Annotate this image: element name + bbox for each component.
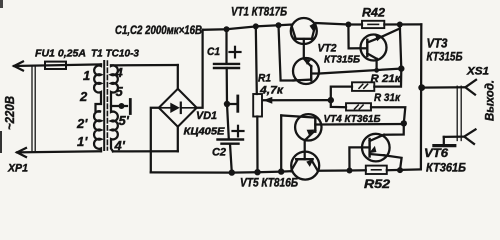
bridge rectifier VD1 bbox=[159, 89, 197, 127]
wire: bridge bottom riser bbox=[177, 127, 179, 152]
capacitor C1 bbox=[214, 29, 239, 104]
svg-text:ХS1: ХS1 bbox=[466, 66, 489, 78]
wire: plug top pin through fuse to primary bbox=[14, 64, 101, 66]
svg-text:5': 5' bbox=[119, 113, 130, 128]
wire: bridge plus riser to top rail bbox=[197, 30, 203, 108]
svg-text:VT1 КТ817Б: VT1 КТ817Б bbox=[231, 5, 287, 19]
svg-text:КТ315Б: КТ315Б bbox=[324, 53, 361, 65]
chassis symbol at C1/C2 midpoint bbox=[236, 96, 239, 111]
wire: plug bottom pin to primary bbox=[17, 151, 101, 152]
junction bbox=[229, 169, 235, 175]
transistor VT4 bbox=[281, 114, 321, 140]
wire: R4 right to corner bbox=[384, 23, 421, 25]
wire: top rail right bbox=[316, 23, 362, 25]
svg-text:VT6: VT6 bbox=[424, 146, 448, 160]
svg-text:КЦ405Е: КЦ405Е bbox=[184, 126, 226, 138]
junction: centre tap bbox=[119, 103, 125, 109]
svg-text:1: 1 bbox=[83, 68, 90, 83]
svg-text:VT3: VT3 bbox=[427, 37, 448, 51]
svg-text:С1: С1 bbox=[207, 46, 220, 58]
ground: output common chassis bbox=[434, 137, 455, 146]
wire: R2 left to wiper node bbox=[331, 87, 352, 108]
svg-text:R 31к: R 31к bbox=[374, 92, 401, 104]
transistor VT2 bbox=[293, 58, 319, 84]
svg-text:КТ361Б: КТ361Б bbox=[426, 161, 466, 175]
wire: VT4 base line to node bbox=[321, 123, 404, 126]
junction bbox=[401, 120, 407, 126]
svg-text:R 21к: R 21к bbox=[371, 73, 402, 85]
plus sign C1 bbox=[230, 47, 241, 58]
junction: wiper node bbox=[328, 97, 334, 103]
junction: C1/C2 midpoint bbox=[224, 101, 230, 107]
svg-text:5: 5 bbox=[116, 84, 124, 99]
svg-text:С1,С2 2000мк×16В: С1,С2 2000мк×16В bbox=[115, 25, 202, 37]
junction bbox=[253, 23, 259, 29]
wire: node down right of R42 bbox=[400, 25, 402, 69]
capacitor C2 bbox=[218, 104, 244, 173]
svg-text:VD1: VD1 bbox=[196, 110, 217, 122]
svg-text:Т1 ТС10-3: Т1 ТС10-3 bbox=[91, 48, 139, 60]
wire: rail to VT2 collector bbox=[279, 25, 294, 80]
wire: node to R2 right bbox=[374, 69, 401, 87]
junction bbox=[224, 26, 230, 32]
wire: bottom rail right bbox=[318, 169, 366, 172]
resistor R3 bbox=[346, 103, 371, 110]
wire: midpoint to chassis bbox=[227, 103, 237, 105]
wire: rail dot to VT6 base bbox=[349, 147, 361, 170]
scan edge artifact bbox=[0, 131, 2, 153]
resistor R5 bbox=[366, 166, 387, 174]
transistor VT6 bbox=[362, 134, 390, 162]
svg-text:FU1 0,25A: FU1 0,25A bbox=[35, 48, 86, 60]
junction bbox=[397, 22, 403, 28]
wire: secondary 4 to bridge top bbox=[111, 64, 178, 67]
junction bbox=[397, 167, 403, 173]
wire: VT4 collector to bottom rail bbox=[280, 115, 282, 171]
svg-text:R1: R1 bbox=[258, 73, 271, 85]
transformer T1 core bbox=[104, 61, 107, 150]
junction bbox=[254, 169, 260, 175]
svg-text:С2: С2 bbox=[212, 147, 226, 159]
svg-text:2: 2 bbox=[79, 89, 88, 104]
transformer T1 secondary winding bbox=[111, 65, 118, 151]
svg-text:2': 2' bbox=[76, 116, 88, 131]
svg-text:КТ315Б: КТ315Б bbox=[427, 52, 463, 64]
wire: bottom rail left bbox=[151, 171, 291, 172]
wire: VT6 collector to node bbox=[384, 123, 404, 134]
svg-text:ХР1: ХР1 bbox=[7, 163, 28, 175]
svg-text:~220В: ~220В bbox=[2, 96, 17, 130]
svg-text:Выход.: Выход. bbox=[485, 80, 497, 121]
plus sign C2 bbox=[233, 126, 244, 137]
transistor VT1 bbox=[291, 18, 317, 58]
junction bbox=[418, 84, 425, 91]
transistor VT3 bbox=[361, 29, 400, 71]
wire: R5 right to corner bbox=[387, 168, 421, 171]
wire: VT4 emitter down to VT5 base bbox=[304, 140, 306, 159]
junction bbox=[345, 22, 351, 28]
wire: secondary 4' to bridge bottom bbox=[113, 150, 178, 152]
svg-text:4,7к: 4,7к bbox=[259, 85, 285, 97]
resistor R2 bbox=[352, 82, 374, 91]
wire: right side vertical bbox=[420, 24, 423, 169]
junction: VT3 collector on line bbox=[374, 68, 379, 73]
wire: bridge top riser bbox=[177, 65, 179, 89]
svg-text:1': 1' bbox=[77, 134, 88, 149]
svg-text:VT5 КТ816Б: VT5 КТ816Б bbox=[240, 178, 298, 190]
wire: rail dot to VT3 base bbox=[348, 25, 360, 49]
wire: R3 right to node bbox=[371, 107, 405, 123]
junction bbox=[276, 22, 282, 28]
wire: VT2 base to node bbox=[319, 69, 401, 74]
svg-text:R52: R52 bbox=[364, 177, 390, 190]
resistor R4 bbox=[362, 21, 384, 28]
junction bbox=[347, 168, 353, 174]
wire: secondary centre tap bbox=[111, 105, 127, 107]
junction bbox=[278, 168, 284, 174]
transformer T1 primary winding bbox=[94, 64, 101, 151]
svg-text:R42: R42 bbox=[362, 6, 385, 20]
svg-text:4: 4 bbox=[115, 65, 124, 80]
potentiometer R1 bbox=[253, 26, 331, 172]
connector XP1 bbox=[14, 62, 35, 158]
wire: VT6 emitter to rail bbox=[384, 155, 402, 170]
wire: bridge minus to bottom rail bbox=[151, 108, 159, 173]
connector XS1 bbox=[422, 80, 476, 144]
chassis symbol at transformer tap bbox=[129, 100, 132, 114]
transistor VT5 bbox=[291, 152, 319, 180]
junction bbox=[398, 65, 404, 71]
fuse FU1 bbox=[45, 62, 66, 69]
wire: top rail left bbox=[203, 25, 292, 30]
